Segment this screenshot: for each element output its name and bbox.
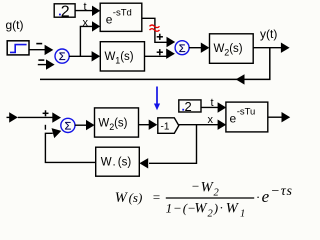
wire step to sum1 xyxy=(29,49,46,51)
svg-text:2: 2 xyxy=(208,209,214,220)
svg-text:2: 2 xyxy=(185,99,192,114)
svg-text:−: − xyxy=(191,178,200,193)
annotation blue arrow xyxy=(156,87,158,105)
wire stub bottom input sum1 xyxy=(38,64,47,66)
svg-text:·: · xyxy=(256,190,259,205)
branch wire up to x input of delay xyxy=(80,26,93,56)
feedback wire from output xyxy=(40,48,270,80)
constant .2 block (bottom) xyxy=(179,100,201,112)
step source block V1 xyxy=(7,41,29,55)
svg-text:g(t): g(t) xyxy=(6,18,24,32)
wire .2 to t input xyxy=(75,10,93,12)
summator U2 xyxy=(175,41,189,55)
svg-text:t: t xyxy=(211,97,214,109)
wire sum1 to W1 xyxy=(69,55,93,57)
svg-text:W: W xyxy=(214,43,225,55)
svg-text:.: . xyxy=(113,157,116,169)
arrowhead into sum1 bottom xyxy=(46,59,55,69)
svg-text:e: e xyxy=(230,112,237,126)
wire from delay down to sum2 xyxy=(142,18,168,42)
svg-text:W: W xyxy=(226,201,240,217)
step waveform xyxy=(10,45,27,53)
arrowhead into sum2 bottom xyxy=(166,49,175,59)
svg-text:−: − xyxy=(173,201,182,216)
output arrowhead y(t) xyxy=(281,43,290,53)
plus sign (bottom input of sum2) xyxy=(157,51,163,53)
svg-text:W: W xyxy=(101,157,112,169)
svg-text:Σ: Σ xyxy=(59,51,66,63)
svg-text:W: W xyxy=(105,51,116,63)
W. block xyxy=(96,147,140,176)
svg-text:W: W xyxy=(201,180,215,196)
arrowhead into W. right side (pointing left) xyxy=(139,158,148,168)
svg-text:−τs: −τs xyxy=(271,184,293,199)
minus sign (bottom input of sum1) xyxy=(38,59,44,61)
svg-text:x: x xyxy=(83,17,89,29)
gain block -1 xyxy=(158,118,179,134)
plus sign (top input of sum2) xyxy=(157,36,163,38)
arrowhead x input (bottom delay) xyxy=(218,120,227,130)
svg-text:(s): (s) xyxy=(120,51,134,63)
wire to sum3 xyxy=(18,116,53,118)
arrowhead into sum3 top xyxy=(52,112,61,122)
formula fraction bar xyxy=(166,197,254,199)
svg-text:1: 1 xyxy=(240,209,245,220)
constant .2 block xyxy=(54,4,75,17)
minus tick (bottom input of sum3) xyxy=(44,125,46,130)
arrowhead into W2b xyxy=(86,120,95,130)
feedback arrowhead (pointing left) xyxy=(236,74,245,84)
svg-text:x: x xyxy=(208,114,214,126)
svg-text:(s): (s) xyxy=(118,157,132,169)
arrowhead into -1 xyxy=(149,120,158,130)
delay block e^-sTd xyxy=(100,3,142,31)
summator U1 xyxy=(55,49,69,63)
arrowhead into W1 xyxy=(92,51,101,61)
W1 block xyxy=(100,42,144,71)
svg-text:y(t): y(t) xyxy=(260,27,277,41)
arrowhead x input xyxy=(92,21,100,31)
svg-text:t: t xyxy=(84,1,87,13)
delay block e^-sTu xyxy=(226,102,268,132)
svg-text:W: W xyxy=(194,201,208,217)
W2 block xyxy=(210,34,254,64)
wire W2 output xyxy=(253,47,281,49)
wire W1 to sum2 xyxy=(145,55,168,57)
svg-text:(s): (s) xyxy=(229,43,243,55)
wire .2b to t input xyxy=(201,106,218,108)
W2 bottom block xyxy=(95,108,139,137)
svg-text:): ) xyxy=(213,201,218,216)
arrowhead into sum2 top xyxy=(167,37,176,47)
break mark red squiggles xyxy=(150,25,160,28)
arrowhead t input (bottom delay) xyxy=(218,102,227,112)
svg-text:e: e xyxy=(106,12,113,26)
feedback wire from W. up into sum3 xyxy=(45,133,95,162)
svg-text:Σ: Σ xyxy=(179,43,186,55)
input arrowhead xyxy=(9,112,18,122)
input stub bottom diagram xyxy=(7,116,11,118)
svg-text:-sTd: -sTd xyxy=(113,7,132,18)
svg-text:=: = xyxy=(152,189,161,204)
wire output bottom xyxy=(268,116,283,118)
arrowhead into sum1 top xyxy=(45,45,54,55)
junction branch down to W. xyxy=(149,125,197,164)
svg-text:·: · xyxy=(220,200,223,215)
arrowhead t input xyxy=(92,6,100,16)
svg-text:e: e xyxy=(262,187,270,206)
arrowhead into W2 xyxy=(201,43,210,53)
svg-text:2: 2 xyxy=(61,3,70,20)
svg-text:W: W xyxy=(98,118,109,130)
svg-text:Σ: Σ xyxy=(64,121,71,133)
svg-text:2: 2 xyxy=(214,188,220,199)
svg-text:(s): (s) xyxy=(114,118,128,130)
wire sum2 to W2 xyxy=(189,47,202,49)
summator U3 xyxy=(61,118,75,132)
plus sign (top input of sum3) xyxy=(43,112,49,114)
svg-text:1: 1 xyxy=(166,201,173,216)
minus sign (top input of sum1) xyxy=(36,43,42,45)
wire -1 to x input xyxy=(179,124,219,126)
svg-text:-sTu: -sTu xyxy=(237,107,256,118)
arrowhead into sum3 bottom xyxy=(52,126,63,138)
output arrowhead bottom xyxy=(282,112,291,122)
wire W2b to -1 xyxy=(139,124,150,126)
wire sum3 to W2b xyxy=(75,124,87,126)
svg-text:-1: -1 xyxy=(161,121,170,132)
svg-text:(s): (s) xyxy=(129,190,143,205)
svg-text:W: W xyxy=(115,190,129,206)
